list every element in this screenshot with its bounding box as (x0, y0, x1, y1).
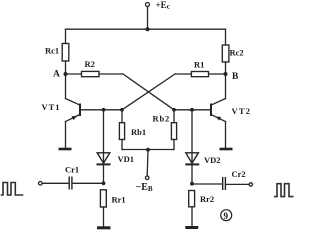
resistor R1 (191, 60, 208, 77)
transistor VT2 (211, 74, 251, 122)
svg-text:B: B (232, 72, 239, 82)
wire cross-coupling diagonal R2 to VT2 base (123, 74, 174, 110)
wire VT1 emitter down (65, 122, 67, 149)
input square wave symbol (1, 183, 24, 196)
ground VT1 emitter (59, 148, 72, 151)
node input junction (102, 181, 106, 185)
svg-text:Rb2: Rb2 (153, 114, 171, 124)
wire R1 left (175, 73, 191, 75)
node Rb2 tap (172, 108, 176, 112)
capacitor Cr2 (223, 169, 246, 190)
node B (224, 72, 240, 82)
wire VD2 branch (191, 110, 193, 164)
wire Rb1 branch (121, 110, 123, 123)
svg-text:Rr2: Rr2 (200, 194, 214, 204)
wire Cr2 to output terminal (227, 183, 250, 185)
svg-text:VT2: VT2 (232, 106, 252, 116)
wire rail to Rc2 (225, 29, 227, 45)
wire node A to R2 (66, 73, 82, 75)
node junction on top rail (146, 27, 150, 31)
figure number 9 circled (221, 210, 232, 221)
wire Rr1 to ground (103, 207, 105, 226)
svg-text:9: 9 (224, 211, 229, 221)
wire Cr1 to input node (73, 182, 104, 184)
resistor Rc1 (45, 44, 69, 62)
svg-text:VD2: VD2 (204, 155, 221, 165)
svg-text:R1: R1 (194, 60, 204, 70)
svg-text:VT1: VT1 (42, 102, 61, 112)
node Rb1 tap (120, 108, 124, 112)
wire VT2 base (174, 109, 211, 111)
wire VT1 base (80, 109, 122, 111)
resistor Rc2 (222, 45, 243, 62)
wire node B to R1 (209, 73, 226, 75)
wire VD2 to output node (191, 164, 193, 183)
resistor Rr2 (189, 191, 214, 207)
ground Rr2 (185, 226, 198, 229)
wire output node to Cr2 (192, 183, 222, 185)
terminal output (249, 183, 252, 186)
resistor R2 (82, 59, 100, 77)
wire Rc2 to node B (225, 62, 227, 74)
wire Rr2 to ground (191, 207, 193, 226)
node VD2 tap (190, 108, 194, 112)
wire +Ec terminal to top rail (147, 7, 149, 30)
wire EB tap down (146, 150, 149, 177)
terminal -EB (136, 176, 153, 193)
capacitor Cr1 (65, 165, 79, 190)
svg-text:A: A (53, 70, 60, 80)
+Ec supply terminal (146, 0, 171, 11)
node A (53, 70, 68, 80)
wire R2 right (99, 73, 123, 75)
resistor Rb1 (119, 123, 146, 140)
node EB tap (146, 148, 150, 152)
wire VT2 emitter down (225, 122, 227, 149)
node output junction (190, 182, 194, 186)
resistor Rr1 (100, 190, 125, 207)
terminal input (39, 182, 43, 186)
wire Rc1 to node A (65, 61, 67, 74)
svg-text:Cr2: Cr2 (232, 169, 246, 179)
transistor VT1 (42, 74, 81, 122)
svg-text:Rc2: Rc2 (230, 48, 244, 58)
wire Rb2 branch (173, 110, 175, 123)
svg-text:Cr1: Cr1 (65, 165, 79, 175)
svg-text:Rb1: Rb1 (131, 127, 146, 137)
svg-text:VD1: VD1 (118, 154, 135, 164)
wire input terminal to Cr1 (42, 182, 68, 184)
wire top rail (66, 28, 226, 30)
resistor Rb2 (153, 114, 177, 140)
wire VD1 branch (103, 110, 105, 164)
diode VD2 (185, 153, 220, 165)
wire EB rail (122, 149, 174, 151)
diode VD1 (97, 153, 135, 165)
ground VT2 emitter (220, 148, 233, 151)
ground Rr1 (97, 226, 111, 229)
svg-text:R2: R2 (85, 59, 95, 69)
wire VD1 to input node (103, 164, 105, 183)
wire rail to Rc1 (65, 29, 67, 43)
node VD1 tap (102, 108, 106, 112)
output square wave symbol (274, 184, 294, 197)
wire Rb2 to EB rail (173, 140, 175, 150)
wire Rb1 to EB rail (121, 140, 123, 150)
svg-text:Rr1: Rr1 (112, 195, 126, 205)
svg-text:+Ec: +Ec (156, 0, 171, 11)
svg-text:Rc1: Rc1 (45, 46, 59, 56)
wire cross-coupling diagonal R1 to VT1 base (122, 74, 175, 110)
